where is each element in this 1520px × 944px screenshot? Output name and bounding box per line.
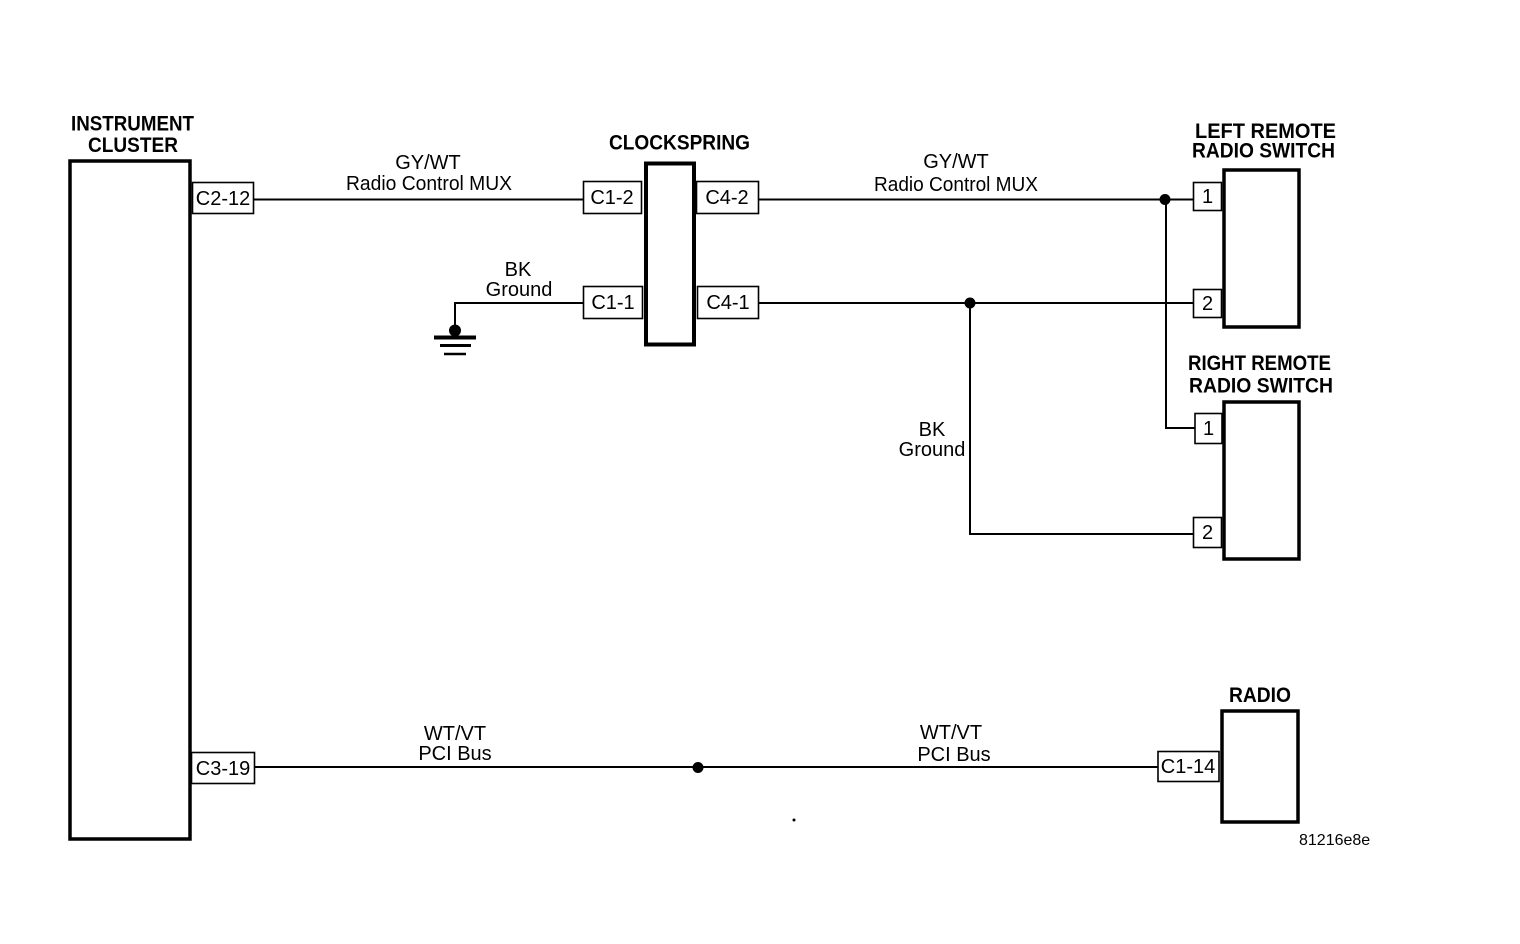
right remote radio switch label — [1188, 351, 1333, 398]
label GY/WT Radio Control MUX (right) — [874, 151, 1038, 196]
svg-text:BK: BK — [919, 419, 946, 441]
svg-text:C2-12: C2-12 — [196, 188, 250, 210]
connector C1-1 — [584, 287, 643, 319]
connector C4-2 — [697, 182, 759, 214]
svg-text:BK: BK — [505, 259, 532, 281]
label BK Ground (right) — [899, 419, 966, 461]
label GY/WT Radio Control MUX (left) — [346, 152, 512, 195]
svg-text:Radio Control MUX: Radio Control MUX — [874, 174, 1038, 196]
svg-text:CLOCKSPRING: CLOCKSPRING — [609, 131, 750, 155]
wire junction to right switch pin 2 — [970, 303, 1193, 534]
connector C2-12 — [193, 183, 254, 214]
wire ground to C1-1 (BK) — [455, 302, 583, 331]
svg-text:Ground: Ground — [899, 439, 966, 461]
instrument cluster label — [71, 112, 194, 158]
svg-text:PCI Bus: PCI Bus — [917, 744, 990, 766]
svg-text:RADIO: RADIO — [1229, 683, 1291, 707]
svg-text:C1-1: C1-1 — [591, 292, 634, 314]
left switch pin 1 — [1194, 183, 1222, 211]
wire C4-2 to left switch pin 1 (GY/WT) — [759, 199, 1193, 201]
label WT/VT PCI Bus (left) — [418, 723, 491, 765]
svg-text:WT/VT: WT/VT — [424, 723, 486, 745]
ground symbol — [434, 325, 476, 355]
svg-text:2: 2 — [1202, 522, 1213, 544]
right switch pin 1 — [1195, 414, 1222, 444]
svg-text:C1-2: C1-2 — [590, 187, 633, 209]
svg-text:RADIO SWITCH: RADIO SWITCH — [1192, 139, 1335, 163]
svg-text:C3-19: C3-19 — [196, 758, 250, 780]
figure number 81216e8e — [1299, 832, 1370, 849]
radio box — [1222, 711, 1298, 822]
svg-text:INSTRUMENT: INSTRUMENT — [71, 112, 194, 136]
radio label — [1229, 683, 1291, 707]
right switch pin 2 — [1194, 518, 1222, 548]
svg-text:C1-14: C1-14 — [1161, 756, 1215, 778]
left remote radio switch box — [1224, 170, 1299, 327]
connector C1-2 — [584, 182, 642, 214]
svg-text:GY/WT: GY/WT — [395, 152, 461, 174]
wire C4-1 to left switch pin 2 (BK) — [759, 302, 1193, 304]
left remote radio switch label — [1192, 119, 1336, 163]
svg-text:Ground: Ground — [486, 279, 553, 301]
connector C3-19 — [192, 753, 255, 784]
clockspring label — [609, 131, 750, 155]
svg-text:RIGHT REMOTE: RIGHT REMOTE — [1188, 351, 1331, 375]
svg-text:1: 1 — [1203, 418, 1214, 440]
svg-text:C4-2: C4-2 — [705, 187, 748, 209]
svg-text:GY/WT: GY/WT — [923, 151, 989, 173]
instrument cluster box — [70, 161, 190, 839]
svg-text:WT/VT: WT/VT — [920, 722, 982, 744]
wire C3-19 to C1-14 (WT/VT PCI Bus) — [255, 766, 1158, 768]
svg-text:2: 2 — [1202, 293, 1213, 315]
connector C4-1 — [698, 287, 759, 319]
right remote radio switch box — [1224, 402, 1299, 559]
clockspring box — [646, 164, 694, 345]
label BK Ground (left) — [486, 259, 553, 301]
label WT/VT PCI Bus (right) — [917, 722, 990, 766]
svg-text:1: 1 — [1202, 186, 1213, 208]
svg-text:PCI Bus: PCI Bus — [418, 743, 491, 765]
left switch pin 2 — [1194, 290, 1222, 318]
stray speck — [793, 819, 796, 822]
svg-text:C4-1: C4-1 — [706, 292, 749, 314]
junction BK — [965, 298, 976, 309]
svg-text:RADIO SWITCH: RADIO SWITCH — [1189, 374, 1333, 398]
wire C2-12 to C1-2 (GY/WT) — [254, 199, 583, 201]
svg-text:CLUSTER: CLUSTER — [88, 133, 178, 157]
junction PCI bus — [693, 762, 704, 773]
wire junction to right switch pin 1 — [1166, 200, 1195, 429]
junction GY/WT — [1160, 194, 1171, 205]
connector C1-14 — [1158, 752, 1219, 782]
svg-text:Radio Control MUX: Radio Control MUX — [346, 173, 512, 195]
svg-text:81216e8e: 81216e8e — [1299, 832, 1370, 849]
